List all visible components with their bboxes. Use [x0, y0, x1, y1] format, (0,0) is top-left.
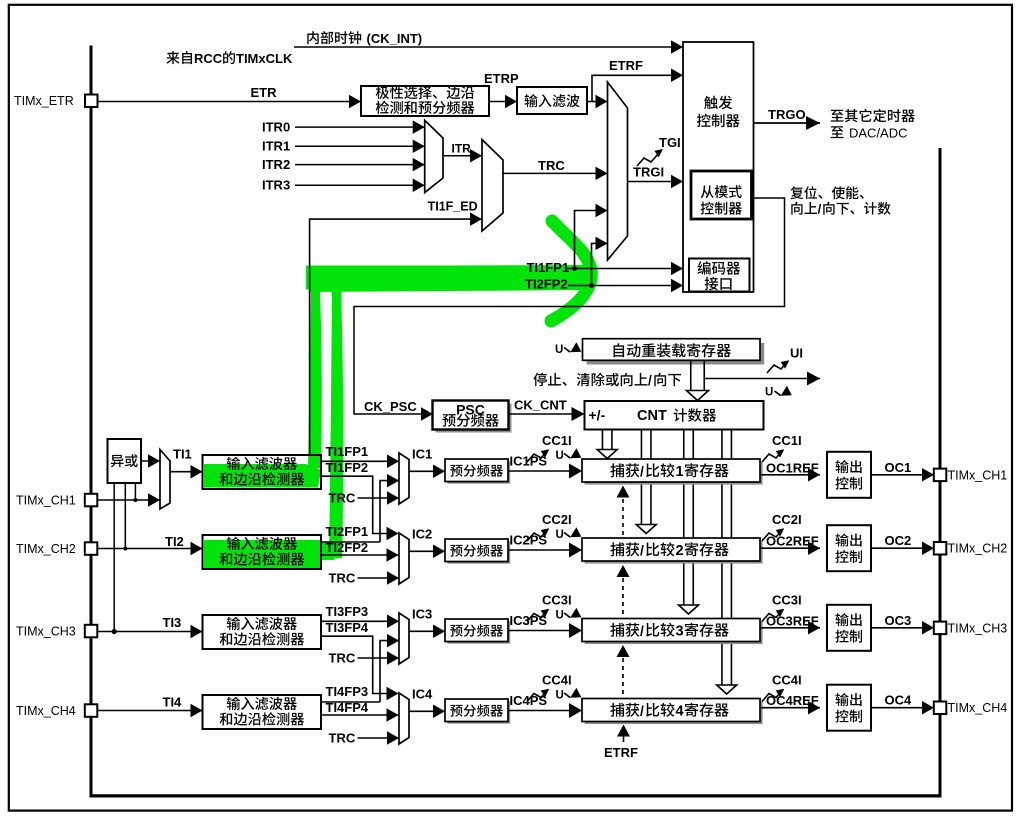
- label 停止清除或向上向下: [533, 373, 647, 387]
- label TGI interrupt: [637, 153, 659, 166]
- svg-text:2: 2: [676, 543, 684, 559]
- svg-text:CC1I: CC1I: [542, 433, 572, 448]
- label CC2I capture interrupt left: [527, 529, 548, 541]
- svg-text:TRC: TRC: [329, 731, 356, 746]
- svg-text:TRC: TRC: [329, 651, 356, 666]
- svg-text:CC1I: CC1I: [772, 433, 802, 448]
- label to other timers / DAC ADC: [831, 109, 915, 122]
- svg-text:U: U: [555, 344, 563, 356]
- svg-text:ITR1: ITR1: [262, 139, 290, 154]
- svg-text:+/-: +/-: [589, 407, 606, 423]
- label CC4I capture interrupt right: [762, 690, 783, 702]
- svg-text:IC4: IC4: [412, 687, 433, 702]
- mux TRC select: [482, 140, 503, 232]
- svg-text:(CK_INT): (CK_INT): [367, 31, 423, 46]
- svg-text:TI2FP2: TI2FP2: [326, 540, 369, 555]
- block polarity selection edge detector prescaler: [361, 86, 489, 116]
- wire ETRP: [489, 101, 517, 103]
- wire IC4: [409, 710, 445, 712]
- label UI interrupt: [767, 361, 788, 373]
- block CNT counter: [585, 401, 764, 430]
- svg-text:TIMx_CH2: TIMx_CH2: [16, 542, 76, 556]
- block slave mode controller: [691, 171, 752, 219]
- wire TIMx_CH1 to TI1 mux: [97, 499, 160, 501]
- wire IC3PS: [508, 630, 582, 632]
- label 内部时钟 (CK_INT): [307, 31, 361, 44]
- svg-text:TGI: TGI: [659, 135, 681, 150]
- svg-text:TIMx_CH3: TIMx_CH3: [16, 625, 76, 639]
- svg-text:OC4: OC4: [885, 693, 913, 708]
- bottom bus: [90, 794, 942, 797]
- label CC1I capture interrupt right: [762, 450, 783, 462]
- svg-text:TI4FP3: TI4FP3: [326, 684, 369, 699]
- block input filter and edge detector TI3: [203, 615, 322, 649]
- svg-text:TI1FP1: TI1FP1: [527, 260, 570, 275]
- svg-text:/: /: [640, 703, 644, 719]
- svg-text:TI3: TI3: [163, 615, 182, 630]
- wire ITR1: [295, 145, 425, 147]
- svg-text:DAC/ADC: DAC/ADC: [849, 126, 908, 141]
- mux IC1 select: [399, 453, 409, 504]
- wire ETRF to TRGI mux: [592, 101, 608, 103]
- svg-text:TRC: TRC: [329, 491, 356, 506]
- wire TRC stub row 4: [358, 737, 400, 739]
- svg-text:ITR2: ITR2: [262, 157, 290, 172]
- wire cross up into IC3 mux: [380, 641, 399, 702]
- block input filter and edge detector TI2: [203, 535, 322, 569]
- svg-text:/: /: [648, 373, 652, 388]
- wire TI1FP1 to encoder: [566, 268, 683, 270]
- svg-text:IC2: IC2: [412, 527, 432, 542]
- svg-text:OC3REF: OC3REF: [766, 613, 819, 628]
- mux TI1 xor select: [160, 450, 170, 510]
- label 来自RCC的TIMxCLK: [166, 51, 192, 64]
- svg-text:TI2FP1: TI2FP1: [326, 524, 369, 539]
- svg-text:3: 3: [676, 624, 684, 640]
- svg-text:4: 4: [676, 704, 684, 720]
- wire IC3: [409, 630, 445, 632]
- svg-text:CC4I: CC4I: [772, 673, 802, 688]
- pin TIMx_CH1 left: [85, 494, 98, 507]
- pin TIMx_CH3 right: [934, 622, 947, 635]
- wire IC4PS: [508, 710, 582, 712]
- wire XOR output: [141, 460, 160, 462]
- wire TI1FP1: [321, 460, 399, 462]
- svg-text:U: U: [556, 690, 564, 702]
- svg-text:TIMx_CH3: TIMx_CH3: [948, 621, 1008, 635]
- register capture/compare 2: [585, 541, 763, 564]
- hollow arrow CNT to capture2: [640, 430, 642, 526]
- wire TI3FP4 cross down: [321, 636, 399, 693]
- svg-text:U: U: [765, 387, 773, 399]
- wire TRGO: [754, 122, 821, 124]
- wire TRC stub row 3: [358, 657, 400, 659]
- svg-text:OC2: OC2: [885, 533, 912, 548]
- block input filter ETR: [517, 87, 587, 114]
- svg-text:ETRF: ETRF: [609, 58, 643, 73]
- register auto-reload 自动重装载寄存器: [587, 343, 765, 365]
- wire cross up into IC1 mux: [380, 481, 399, 542]
- wire TI2FP2 to encoder: [568, 285, 683, 287]
- highlight green stroke down to TI2 filter: [329, 288, 343, 559]
- label CC3I capture interrupt right: [762, 610, 783, 622]
- wire ETRF to capture4: [623, 735, 625, 742]
- svg-text:ETRF: ETRF: [604, 745, 638, 760]
- svg-text:TI1FP2: TI1FP2: [326, 460, 369, 475]
- wire XOR input from CH2: [124, 483, 126, 549]
- wire TI3FP3: [321, 620, 399, 622]
- wire ITR: [443, 155, 482, 157]
- wire OC4: [871, 707, 934, 709]
- wire IC2: [409, 550, 445, 552]
- block XOR 异或: [108, 439, 142, 483]
- wire OC2: [871, 547, 934, 549]
- svg-text:TI3FP4: TI3FP4: [326, 620, 369, 635]
- block trigger controller: [683, 42, 754, 292]
- dashed wire capture2 to capture1: [622, 499, 624, 538]
- label CC4I capture interrupt left: [527, 690, 548, 702]
- svg-text:ITR: ITR: [452, 142, 472, 156]
- svg-text:ETR: ETR: [251, 85, 278, 100]
- hollow arrow CNT to capture3: [683, 430, 685, 607]
- svg-text:TIMx_CH1: TIMx_CH1: [948, 468, 1008, 482]
- wire ETR: [98, 101, 362, 103]
- svg-text:OC4REF: OC4REF: [766, 693, 819, 708]
- wire reset enable up/down count: [354, 198, 785, 414]
- hollow arrow CNT to capture4: [721, 430, 723, 687]
- label 复位使能: [790, 186, 863, 199]
- mux TRGI select: [608, 82, 628, 260]
- svg-text:/: /: [640, 463, 644, 479]
- dashed wire capture4 to capture3: [622, 658, 624, 698]
- hollow arrow auto-reload to CNT: [690, 361, 692, 392]
- svg-text:CC3I: CC3I: [772, 593, 802, 608]
- svg-text:TRC: TRC: [329, 571, 356, 586]
- svg-text:1: 1: [676, 464, 684, 480]
- wire XOR input from CH3: [113, 483, 115, 632]
- svg-text:U: U: [556, 529, 564, 541]
- svg-text:TRGO: TRGO: [768, 107, 806, 122]
- label CC1I capture interrupt left: [527, 450, 548, 462]
- block output control 1: [827, 452, 871, 498]
- block output control 3: [827, 605, 871, 651]
- wire OC4REF: [760, 707, 820, 709]
- highlight green fill TI1 filter box: [204, 464, 321, 488]
- wire OC1: [871, 474, 934, 476]
- highlight green swoosh arrow: [551, 221, 591, 321]
- svg-text:TIMx_ETR: TIMx_ETR: [14, 94, 74, 108]
- pin TIMx_CH2 left: [85, 542, 98, 555]
- block prescaler IC2: [447, 541, 510, 564]
- svg-text:TI3FP3: TI3FP3: [326, 604, 369, 619]
- pin TIMx_CH4 left: [85, 704, 98, 717]
- svg-text:RCC: RCC: [194, 51, 223, 66]
- block prescaler IC3: [447, 621, 510, 644]
- block output control 2: [827, 525, 871, 571]
- block output control 4: [827, 685, 871, 731]
- wire ITR0: [295, 126, 425, 128]
- block PSC prescaler: [436, 404, 512, 433]
- svg-text:U: U: [556, 610, 564, 622]
- svg-text:UI: UI: [790, 346, 803, 361]
- wire TI4: [97, 710, 202, 712]
- register capture/compare 4: [585, 701, 763, 724]
- pin TIMx_CH2 right: [934, 542, 947, 555]
- wire TI2: [97, 548, 202, 550]
- pin TIMx_CH3 left: [85, 625, 98, 638]
- label CC2I capture interrupt right: [762, 529, 783, 541]
- wire OC1REF: [760, 474, 820, 476]
- wire TI4FP3 cross up: [321, 701, 380, 703]
- mux IC3 select: [399, 613, 409, 664]
- right pin bus: [939, 148, 942, 797]
- block input filter and edge detector TI4: [203, 695, 322, 729]
- svg-text:IC3: IC3: [412, 607, 432, 622]
- wire TRGI: [628, 181, 684, 183]
- svg-text:TI1: TI1: [173, 447, 192, 462]
- wire TRC stub row 2: [358, 577, 400, 579]
- mux IC2 select: [399, 533, 409, 584]
- wire OC3REF: [760, 627, 820, 629]
- svg-text:ITR3: ITR3: [262, 178, 290, 193]
- wire TI1FP2 cross down: [321, 476, 399, 533]
- svg-text:TI2: TI2: [165, 534, 184, 549]
- block input filter and edge detector TI1: [203, 455, 322, 489]
- svg-text:CC2I: CC2I: [772, 512, 802, 527]
- wire TI2FP1 cross up: [321, 541, 380, 543]
- svg-text:TIMx_CH4: TIMx_CH4: [16, 704, 76, 718]
- mux IC4 select: [399, 693, 409, 744]
- wire OC2REF: [760, 547, 820, 549]
- svg-text:IC1: IC1: [412, 447, 432, 462]
- svg-text:TI1F_ED: TI1F_ED: [428, 200, 478, 214]
- svg-text:TI2FP2: TI2FP2: [525, 277, 568, 292]
- wire TI4FP4: [321, 714, 399, 716]
- wire ITR3: [295, 184, 425, 186]
- block encoder interface: [689, 259, 750, 292]
- svg-text:CNT: CNT: [637, 408, 667, 424]
- wire TI2FP2 branch to TRGI mux: [592, 243, 608, 285]
- svg-text:CK_CNT: CK_CNT: [514, 398, 567, 413]
- svg-text:TIMx_CH2: TIMx_CH2: [948, 542, 1008, 556]
- wire TI1: [170, 471, 203, 473]
- svg-text:/: /: [818, 202, 822, 217]
- svg-text:OC3: OC3: [885, 613, 912, 628]
- dashed wire capture3 to capture2: [622, 578, 624, 618]
- svg-text:TI1FP1: TI1FP1: [326, 444, 369, 459]
- wire ITR2: [295, 164, 425, 166]
- wire internal clock CK_INT: [294, 46, 683, 48]
- pin TIMx_CH4 right: [934, 702, 947, 715]
- svg-text:TI4FP4: TI4FP4: [326, 700, 369, 715]
- svg-text:CC4I: CC4I: [542, 673, 572, 688]
- block prescaler IC1: [447, 461, 510, 484]
- svg-text:CC3I: CC3I: [542, 593, 572, 608]
- wire IC2PS: [508, 549, 582, 551]
- wire U event out: [704, 378, 820, 380]
- wire TI1FP1 branch to TRGI mux: [575, 211, 608, 269]
- wire IC1PS: [508, 470, 582, 472]
- block prescaler IC4: [447, 701, 510, 724]
- svg-text:/: /: [640, 542, 644, 558]
- wire TI3: [97, 631, 202, 633]
- svg-text:ITR0: ITR0: [262, 120, 290, 135]
- hollow arrow CNT to capture1: [601, 430, 603, 451]
- wire TI2FP2: [321, 554, 399, 556]
- highlight green band TI1FP1/TI2FP2 route: [307, 265, 590, 292]
- svg-text:TIMx_CH4: TIMx_CH4: [948, 701, 1008, 715]
- wire CK_CNT: [508, 413, 585, 415]
- wire TRC stub row 1: [358, 497, 400, 499]
- svg-text:TI4: TI4: [163, 695, 183, 710]
- wire TI1F_ED: [310, 219, 482, 456]
- pin TIMx_CH1 right: [934, 469, 947, 482]
- svg-text:/: /: [640, 623, 644, 639]
- mux ITR select: [425, 120, 443, 192]
- wire IC1: [409, 470, 445, 472]
- svg-text:CC2I: CC2I: [542, 512, 572, 527]
- left pin bus: [90, 46, 93, 798]
- svg-text:OC2REF: OC2REF: [766, 534, 819, 549]
- wire TRC to TRGI mux: [503, 172, 608, 174]
- svg-text:CK_PSC: CK_PSC: [364, 399, 417, 414]
- wire OC3: [871, 627, 934, 629]
- wire ETRF to trigger controller: [587, 101, 592, 103]
- highlight green stroke down to TI1 filter: [308, 288, 322, 469]
- svg-text:TRGI: TRGI: [633, 165, 664, 180]
- svg-text:OC1REF: OC1REF: [766, 460, 819, 475]
- register capture/compare 3: [585, 621, 763, 644]
- label CC3I capture interrupt left: [527, 610, 548, 622]
- register capture/compare 1: [585, 462, 763, 485]
- svg-text:OC1: OC1: [885, 460, 912, 475]
- svg-text:TIMxCLK: TIMxCLK: [236, 51, 293, 66]
- svg-text:U: U: [556, 450, 564, 462]
- highlight green fill TI2 filter box: [204, 540, 322, 568]
- svg-text:ETRP: ETRP: [484, 71, 519, 86]
- svg-text:TRC: TRC: [538, 158, 565, 173]
- svg-text:TIMx_CH1: TIMx_CH1: [16, 494, 76, 508]
- wire XOR input from CH1: [134, 483, 136, 500]
